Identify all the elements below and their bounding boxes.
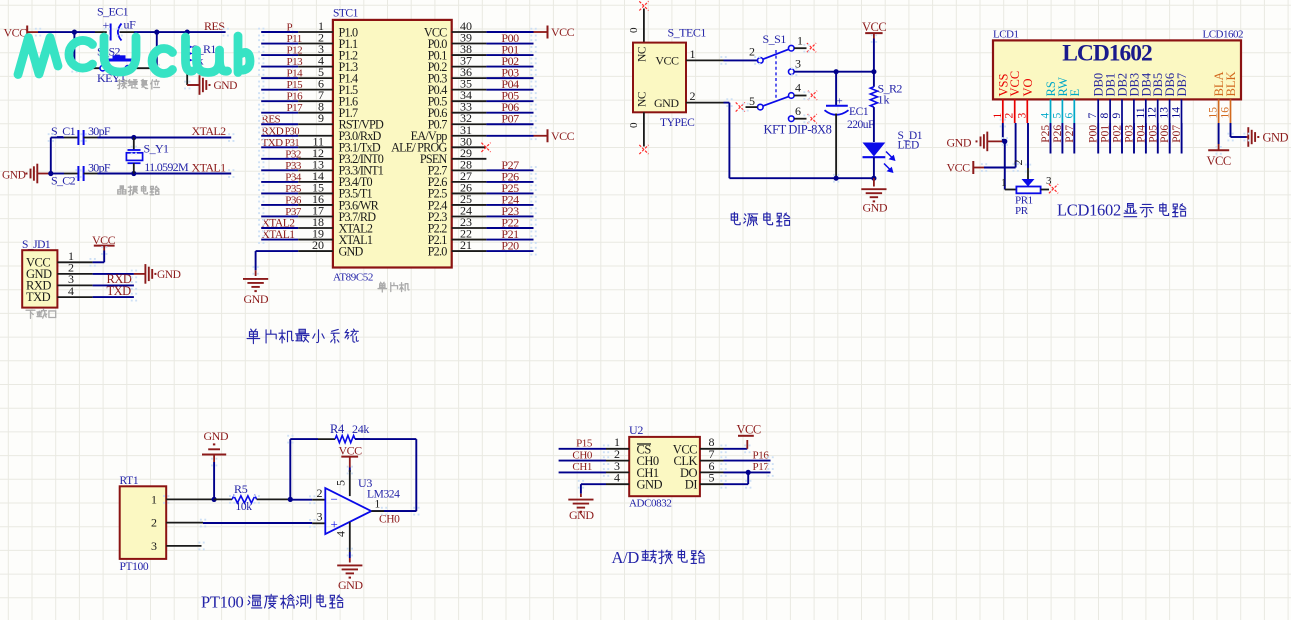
LCD pin 1 stub bbox=[1002, 99, 1004, 123]
wire pin40 VCC bbox=[452, 31, 487, 33]
wire/net label TXD P31 (pin11) bbox=[261, 146, 298, 148]
svg-text:P04: P04 bbox=[1135, 125, 1147, 143]
wire key branch left bbox=[73, 32, 75, 68]
wire feedback left leg bbox=[289, 439, 291, 499]
svg-text:9: 9 bbox=[1111, 113, 1123, 119]
RT1 pin1 bbox=[166, 498, 214, 500]
svg-text:TXD: TXD bbox=[107, 284, 132, 298]
wire/net label P04 (LCD) bbox=[1145, 123, 1147, 154]
PR1 pin3 + no-ERC bbox=[1041, 189, 1049, 191]
wire XTAL1 bbox=[84, 173, 98, 175]
junction LED bottom bbox=[871, 176, 876, 181]
svg-text:5: 5 bbox=[334, 480, 348, 486]
svg-text:P05: P05 bbox=[1147, 125, 1159, 143]
pin 0 bottom (TYPEC shell) bbox=[643, 112, 645, 146]
RT1 pin2 bbox=[166, 522, 203, 524]
wire/net label P00 bbox=[452, 43, 487, 45]
junction (cap/key left node) bbox=[72, 29, 77, 34]
svg-text:CH0: CH0 bbox=[572, 449, 592, 461]
svg-text:6: 6 bbox=[795, 104, 801, 118]
wire/net label P34 bbox=[261, 181, 298, 183]
svg-text:S_Y1: S_Y1 bbox=[144, 142, 170, 156]
svg-text:XTAL2: XTAL2 bbox=[262, 218, 296, 230]
svg-text:NC: NC bbox=[637, 91, 649, 107]
wire XTAL2 bbox=[84, 137, 98, 139]
junction (RES node) bbox=[185, 29, 190, 34]
svg-text:220uF: 220uF bbox=[847, 119, 874, 131]
wire/net label P06 (LCD) bbox=[1169, 123, 1171, 154]
power ground GND (ADC) bbox=[580, 494, 582, 497]
wire/net label XTAL1 (pin19) bbox=[261, 239, 298, 241]
svg-text:PT100: PT100 bbox=[201, 593, 244, 612]
wire/net label P33 bbox=[261, 169, 298, 171]
wire R5 to inverting node bbox=[257, 498, 291, 500]
wire RT1 pin2 to op-amp non-inverting bbox=[203, 522, 312, 524]
svg-text:P14: P14 bbox=[287, 68, 304, 80]
wire VCC to pin2 bbox=[984, 167, 1016, 169]
svg-text:P02: P02 bbox=[1112, 125, 1124, 143]
svg-text:6: 6 bbox=[1063, 113, 1075, 119]
svg-text:14: 14 bbox=[1171, 107, 1183, 119]
pin4 to GND bbox=[349, 522, 351, 552]
svg-text:24k: 24k bbox=[352, 422, 369, 436]
svg-text:VCC: VCC bbox=[1207, 154, 1231, 168]
wire/net label P07 (LCD) bbox=[1181, 123, 1183, 154]
wire VCC to reset node bbox=[38, 31, 95, 33]
wire RES stub bbox=[187, 31, 225, 33]
svg-text:CH1: CH1 bbox=[572, 461, 592, 473]
wire R1 to GND bbox=[186, 65, 188, 85]
power port VCC (backlight) bbox=[1208, 149, 1229, 151]
svg-text:16: 16 bbox=[1220, 107, 1232, 119]
switch contact 6 bbox=[789, 116, 795, 122]
svg-text:1: 1 bbox=[1001, 177, 1007, 189]
power ground GND (reset) bbox=[187, 84, 199, 86]
wire/net label P01 (LCD) bbox=[1109, 123, 1111, 154]
op-amp output pin1 / CH0 bbox=[371, 510, 384, 512]
svg-text:GND: GND bbox=[338, 578, 363, 592]
svg-text:LCD1602: LCD1602 bbox=[1203, 29, 1244, 41]
svg-text:S_S1: S_S1 bbox=[763, 32, 787, 46]
svg-text:P16: P16 bbox=[287, 91, 304, 103]
svg-text:5: 5 bbox=[1051, 113, 1063, 119]
svg-text:P30: P30 bbox=[285, 126, 300, 137]
wire/net label P07 bbox=[452, 123, 487, 125]
wire pin30 ALE + no-ERC cross bbox=[452, 146, 487, 148]
junction inverting node bbox=[288, 497, 293, 502]
wire/net label P bbox=[261, 31, 298, 33]
pin2 CH0 wire + net label CH0 bbox=[606, 460, 629, 462]
svg-text:GND: GND bbox=[2, 170, 26, 182]
power port VCC (pin40) bbox=[534, 31, 548, 33]
wire BLA to VCC bbox=[1218, 123, 1220, 144]
pin 2 (JD1 GND) bbox=[57, 273, 92, 275]
svg-text:8: 8 bbox=[1099, 113, 1111, 119]
wire/net label P25 bbox=[452, 192, 487, 194]
svg-text:1: 1 bbox=[992, 113, 1004, 119]
wire/net label P15 bbox=[261, 89, 298, 91]
LCD pin 9 stub bbox=[1121, 99, 1123, 123]
svg-text:GND: GND bbox=[214, 80, 238, 92]
svg-text:P07: P07 bbox=[1171, 125, 1183, 143]
wire/net label P03 bbox=[452, 77, 487, 79]
svg-text:0: 0 bbox=[628, 27, 640, 33]
caption 按键复位 bbox=[117, 79, 126, 88]
svg-text:P25: P25 bbox=[1040, 125, 1052, 143]
wire pin31 EA/Vpp VCC bbox=[452, 135, 487, 137]
wire/net label P23 bbox=[452, 215, 487, 217]
svg-text:ADC0832: ADC0832 bbox=[629, 498, 671, 510]
resistor S_R2 1k bbox=[873, 72, 875, 87]
svg-text:4: 4 bbox=[68, 284, 74, 298]
svg-text:VCC: VCC bbox=[339, 444, 363, 458]
capacitor EC1 220uF bbox=[835, 72, 837, 106]
power port VCC (ADC) bbox=[746, 440, 748, 449]
wire/net label P25 (LCD) bbox=[1050, 123, 1052, 154]
svg-text:TXD: TXD bbox=[26, 290, 51, 304]
wire pin5 + no-ERC bbox=[746, 106, 758, 108]
svg-text:A/D: A/D bbox=[612, 548, 640, 567]
wire/net label P27 (LCD) bbox=[1073, 123, 1075, 154]
wire/net label P36 bbox=[261, 204, 298, 206]
wire GND down to pin1 bbox=[213, 462, 215, 499]
svg-text:1k: 1k bbox=[878, 93, 890, 107]
svg-text:P32: P32 bbox=[285, 148, 301, 160]
wire/net label XTAL2 (pin18) bbox=[261, 227, 298, 229]
op-amp U3 LM324 bbox=[312, 499, 325, 501]
svg-text:E: E bbox=[1068, 89, 1082, 97]
svg-text:−: − bbox=[331, 492, 338, 507]
wire/net label P35 bbox=[261, 192, 298, 194]
svg-text:P: P bbox=[287, 22, 293, 34]
wire + ground GND (download) bbox=[93, 273, 134, 275]
wire pin3 to EC1/R2 bbox=[794, 71, 874, 73]
svg-text:+: + bbox=[103, 18, 110, 32]
pin 1 (JD1 VCC) bbox=[57, 261, 92, 263]
svg-text:P12: P12 bbox=[287, 45, 303, 57]
svg-text:P34: P34 bbox=[285, 171, 302, 183]
pin3 CH1 wire + net label CH1 bbox=[606, 471, 629, 473]
svg-text:GND: GND bbox=[637, 478, 663, 492]
wire/net label P02 (LCD) bbox=[1121, 123, 1123, 154]
svg-text:GND: GND bbox=[1263, 131, 1289, 145]
LCD pin 2 stub bbox=[1014, 99, 1016, 123]
svg-text:P17: P17 bbox=[753, 461, 770, 473]
svg-text:30pF: 30pF bbox=[88, 161, 111, 175]
svg-text:4: 4 bbox=[334, 531, 348, 537]
wire/net label RES (pin9) bbox=[261, 123, 298, 125]
svg-text:XTAL2: XTAL2 bbox=[192, 124, 227, 138]
svg-text:11.0592M: 11.0592M bbox=[144, 160, 189, 174]
no-ERC cross (TYPEC bottom) bbox=[639, 145, 648, 154]
svg-text:3: 3 bbox=[1016, 113, 1028, 119]
watermark MCUclub bbox=[18, 36, 250, 75]
svg-text:VCC: VCC bbox=[862, 20, 886, 34]
power ground GND (MCU) bbox=[255, 270, 257, 276]
junction (key right node) bbox=[154, 29, 159, 34]
wire/net label P13 bbox=[261, 66, 298, 68]
svg-text:2: 2 bbox=[749, 45, 755, 59]
pin 1 TYPEC VCC wire bbox=[686, 59, 724, 61]
pin stub PSEN (pin29) bbox=[452, 158, 487, 160]
pin 0 top (TYPEC shell) bbox=[643, 9, 645, 43]
LCD pin 12 stub bbox=[1157, 99, 1159, 123]
svg-text:P07: P07 bbox=[501, 112, 519, 126]
ganged link dashed bbox=[775, 50, 777, 100]
svg-text:GND: GND bbox=[204, 429, 229, 443]
pin4 GND wire bbox=[606, 483, 629, 485]
svg-text:LM324: LM324 bbox=[367, 489, 400, 501]
svg-text:30pF: 30pF bbox=[88, 124, 111, 138]
svg-text:R5: R5 bbox=[234, 482, 248, 496]
svg-text:13: 13 bbox=[1159, 107, 1171, 119]
svg-text:RT1: RT1 bbox=[120, 475, 139, 487]
svg-text:S_C1: S_C1 bbox=[51, 124, 76, 138]
LCD pin 6 stub bbox=[1073, 99, 1075, 123]
LCD pin 4 stub bbox=[1050, 99, 1052, 123]
svg-text:3: 3 bbox=[151, 539, 157, 553]
wire/net label P20 bbox=[452, 250, 487, 252]
svg-text:1: 1 bbox=[797, 34, 803, 48]
wire/net label P26 (LCD) bbox=[1061, 123, 1063, 154]
wire/net label P24 bbox=[452, 204, 487, 206]
wire BLK to GND bbox=[1230, 123, 1232, 137]
wire/net label P01 bbox=[452, 54, 487, 56]
wire/net label P11 bbox=[261, 43, 298, 45]
svg-text:RXD: RXD bbox=[262, 125, 284, 137]
svg-text:P36: P36 bbox=[285, 194, 302, 206]
wire cap to RES node bbox=[120, 31, 135, 33]
caption 单片机 bbox=[378, 282, 386, 292]
wire/net label P12 bbox=[261, 54, 298, 56]
wire/net label P00 (LCD) bbox=[1097, 123, 1099, 154]
svg-text:5: 5 bbox=[749, 94, 755, 108]
svg-text:LCD1: LCD1 bbox=[993, 29, 1019, 41]
junction (XTAL1/crystal) bbox=[131, 171, 136, 176]
svg-text:P33: P33 bbox=[285, 160, 302, 172]
svg-text:AT89C52: AT89C52 bbox=[333, 272, 373, 284]
LCD pin 3 stub bbox=[1026, 99, 1028, 123]
svg-text:2: 2 bbox=[1004, 113, 1016, 119]
svg-text:VCC: VCC bbox=[655, 54, 679, 68]
svg-text:P17: P17 bbox=[287, 102, 304, 114]
wire VSS-PR1 pin1 bbox=[1002, 141, 1004, 142]
LCD pin 16 stub bbox=[1230, 99, 1232, 123]
LCD pin 11 stub bbox=[1145, 99, 1147, 123]
LED S_D1 bbox=[873, 107, 875, 142]
resistor S_R1 1k bbox=[186, 32, 188, 42]
pin8 VCC wire bbox=[700, 448, 724, 450]
power port VCC (pin31) bbox=[534, 135, 548, 137]
svg-text:S_C2: S_C2 bbox=[51, 174, 76, 188]
wire pin20 GND bbox=[298, 250, 333, 252]
svg-text:DI: DI bbox=[685, 478, 698, 492]
wire key branch right bbox=[156, 32, 158, 68]
wire/net label P21 bbox=[452, 239, 487, 241]
svg-text:S_TEC1: S_TEC1 bbox=[668, 26, 707, 40]
svg-text:GND: GND bbox=[569, 508, 594, 522]
svg-text:VO: VO bbox=[1021, 78, 1035, 96]
no-ERC cross (TYPEC top) bbox=[639, 1, 648, 10]
svg-text:NC: NC bbox=[637, 46, 649, 62]
svg-text:+: + bbox=[331, 517, 338, 532]
resistor R5 10k bbox=[214, 498, 232, 500]
svg-text:PR: PR bbox=[1015, 205, 1029, 217]
svg-text:5: 5 bbox=[709, 471, 715, 485]
wire/net label P04 bbox=[452, 89, 487, 91]
svg-text:EC1: EC1 bbox=[849, 106, 869, 118]
svg-text:XTAL1: XTAL1 bbox=[192, 161, 227, 175]
wire/net label P05 bbox=[452, 100, 487, 102]
wire endpoint grips bbox=[258, 28, 260, 30]
wire pin1 + no-ERC bbox=[794, 47, 806, 49]
LCD pin 7 stub bbox=[1097, 99, 1099, 123]
LCD pin 8 stub bbox=[1109, 99, 1111, 123]
pin1 CS wire + net label P15 bbox=[606, 448, 629, 450]
svg-text:TYPEC: TYPEC bbox=[660, 117, 695, 129]
svg-text:4: 4 bbox=[795, 80, 801, 94]
svg-text:TXD: TXD bbox=[262, 137, 284, 149]
junction VSS/GND/PR1 bbox=[1002, 139, 1007, 144]
potentiometer PR1 bbox=[1027, 123, 1029, 168]
wire/net label P16 bbox=[261, 100, 298, 102]
svg-text:GND: GND bbox=[339, 244, 364, 258]
svg-text:11: 11 bbox=[1135, 107, 1147, 118]
wire/net label P22 bbox=[452, 227, 487, 229]
svg-text:2: 2 bbox=[317, 486, 323, 500]
switch contact 3 bbox=[789, 69, 795, 75]
pin 2 TYPEC GND wire bbox=[686, 102, 724, 104]
svg-text:GND: GND bbox=[244, 292, 269, 306]
svg-text:STC1: STC1 bbox=[333, 8, 359, 20]
svg-text:P15: P15 bbox=[287, 79, 304, 91]
svg-text:PT100: PT100 bbox=[120, 561, 149, 573]
svg-text:GND: GND bbox=[157, 269, 181, 281]
svg-text:10k: 10k bbox=[236, 501, 253, 513]
svg-text:4: 4 bbox=[1040, 113, 1052, 119]
svg-text:GND: GND bbox=[947, 136, 972, 150]
svg-text:3: 3 bbox=[1046, 175, 1052, 187]
svg-text:VCC: VCC bbox=[551, 25, 575, 39]
wire/net label RXD P30 (pin10) bbox=[261, 135, 298, 137]
junction RT1 pin1 node bbox=[212, 497, 217, 502]
pin5 DI wire bbox=[700, 483, 724, 485]
svg-text:P27: P27 bbox=[1064, 125, 1076, 143]
wire/net label P37 bbox=[261, 215, 298, 217]
wire/net label P32 bbox=[261, 158, 298, 160]
svg-text:VCC: VCC bbox=[4, 26, 28, 40]
wire pin4 + no-ERC bbox=[794, 95, 806, 97]
junction EC1 top bbox=[834, 69, 839, 74]
junction (XTAL2/crystal) bbox=[131, 135, 136, 140]
svg-text:1: 1 bbox=[375, 499, 381, 511]
LCD pin 14 stub bbox=[1181, 99, 1183, 123]
svg-text:P31: P31 bbox=[285, 138, 300, 149]
caption 电源电路 bbox=[731, 212, 740, 224]
wire/net label P14 bbox=[261, 77, 298, 79]
wire/net label P26 bbox=[452, 181, 487, 183]
svg-text:VCC: VCC bbox=[947, 161, 971, 175]
wire/net label P17 bbox=[261, 112, 298, 114]
svg-text:P13: P13 bbox=[287, 56, 304, 68]
svg-text:BLK: BLK bbox=[1224, 72, 1238, 97]
svg-text:P03: P03 bbox=[1124, 125, 1136, 143]
svg-text:U2: U2 bbox=[629, 423, 643, 437]
LCD pin 15 stub bbox=[1218, 99, 1220, 123]
svg-text:P06: P06 bbox=[1159, 125, 1171, 143]
svg-text:0: 0 bbox=[628, 122, 640, 128]
resistor R4 24k bbox=[290, 438, 318, 440]
LCD pin 5 stub bbox=[1061, 99, 1063, 123]
wire pin6 + no-ERC bbox=[794, 118, 806, 120]
junction R2 top bbox=[871, 69, 876, 74]
svg-text:LED: LED bbox=[898, 140, 919, 152]
svg-text:VCC: VCC bbox=[551, 129, 575, 143]
svg-text:P35: P35 bbox=[285, 183, 302, 195]
caption 单片机最小系统 bbox=[247, 329, 260, 344]
svg-text:P20: P20 bbox=[501, 239, 519, 253]
node: crystal left rail bbox=[48, 171, 53, 176]
pin 4 (JD1 TXD) bbox=[57, 296, 92, 298]
wire/net label P27 bbox=[452, 169, 487, 171]
caption 下载口 bbox=[26, 310, 35, 318]
wire inverting to op-amp pin2 bbox=[290, 499, 312, 501]
svg-text:3: 3 bbox=[317, 510, 323, 524]
svg-text:R4: R4 bbox=[330, 422, 345, 436]
wire/net label P06 bbox=[452, 112, 487, 114]
svg-text:GND: GND bbox=[654, 96, 679, 110]
junction DO/DI bbox=[746, 470, 751, 475]
svg-text:P26: P26 bbox=[1052, 125, 1064, 143]
LED arrows bbox=[886, 152, 893, 159]
svg-text:LCD1602: LCD1602 bbox=[1062, 41, 1152, 67]
svg-text:2: 2 bbox=[690, 89, 696, 103]
svg-text:P37: P37 bbox=[285, 206, 302, 218]
svg-text:7: 7 bbox=[1087, 113, 1099, 119]
svg-text:+: + bbox=[837, 96, 843, 108]
svg-text:2: 2 bbox=[151, 516, 157, 530]
svg-text:P00: P00 bbox=[1088, 125, 1100, 143]
LCD pin 13 stub bbox=[1169, 99, 1171, 123]
svg-text:uF: uF bbox=[124, 18, 137, 32]
svg-text:P01: P01 bbox=[1100, 125, 1112, 143]
LCD pin 10 stub bbox=[1133, 99, 1135, 123]
caption 晶振电路 bbox=[118, 186, 126, 194]
wire/net label P05 (LCD) bbox=[1157, 123, 1159, 154]
power ground GND (LCD right) bbox=[1247, 136, 1249, 138]
power ground GND (power circuit) bbox=[873, 178, 875, 186]
RT1 pin3 stub bbox=[166, 545, 201, 547]
svg-text:4: 4 bbox=[614, 471, 620, 485]
svg-text:LCD1602: LCD1602 bbox=[1057, 201, 1121, 220]
svg-text:KFT DIP-8X8: KFT DIP-8X8 bbox=[764, 123, 832, 137]
pin7 CLK wire + net label P16 bbox=[700, 460, 724, 462]
switch pole 5-4 bbox=[758, 104, 764, 110]
svg-text:15: 15 bbox=[1208, 107, 1220, 119]
svg-text:1: 1 bbox=[690, 47, 696, 61]
svg-text:P16: P16 bbox=[753, 449, 770, 461]
wire/net label P02 bbox=[452, 66, 487, 68]
pin6 DO wire + net label P17 bbox=[700, 471, 724, 473]
svg-text:S_EC1: S_EC1 bbox=[97, 5, 129, 19]
power ground GND (op-amp) bbox=[337, 564, 362, 566]
svg-text:RES: RES bbox=[204, 19, 225, 33]
svg-text:P11: P11 bbox=[287, 33, 302, 45]
svg-text:VCC: VCC bbox=[737, 423, 761, 437]
crystal S_Y1 11.0592M bbox=[133, 138, 135, 151]
wire/net label P03 (LCD) bbox=[1133, 123, 1135, 154]
junction EC1 bottom bbox=[834, 176, 839, 181]
